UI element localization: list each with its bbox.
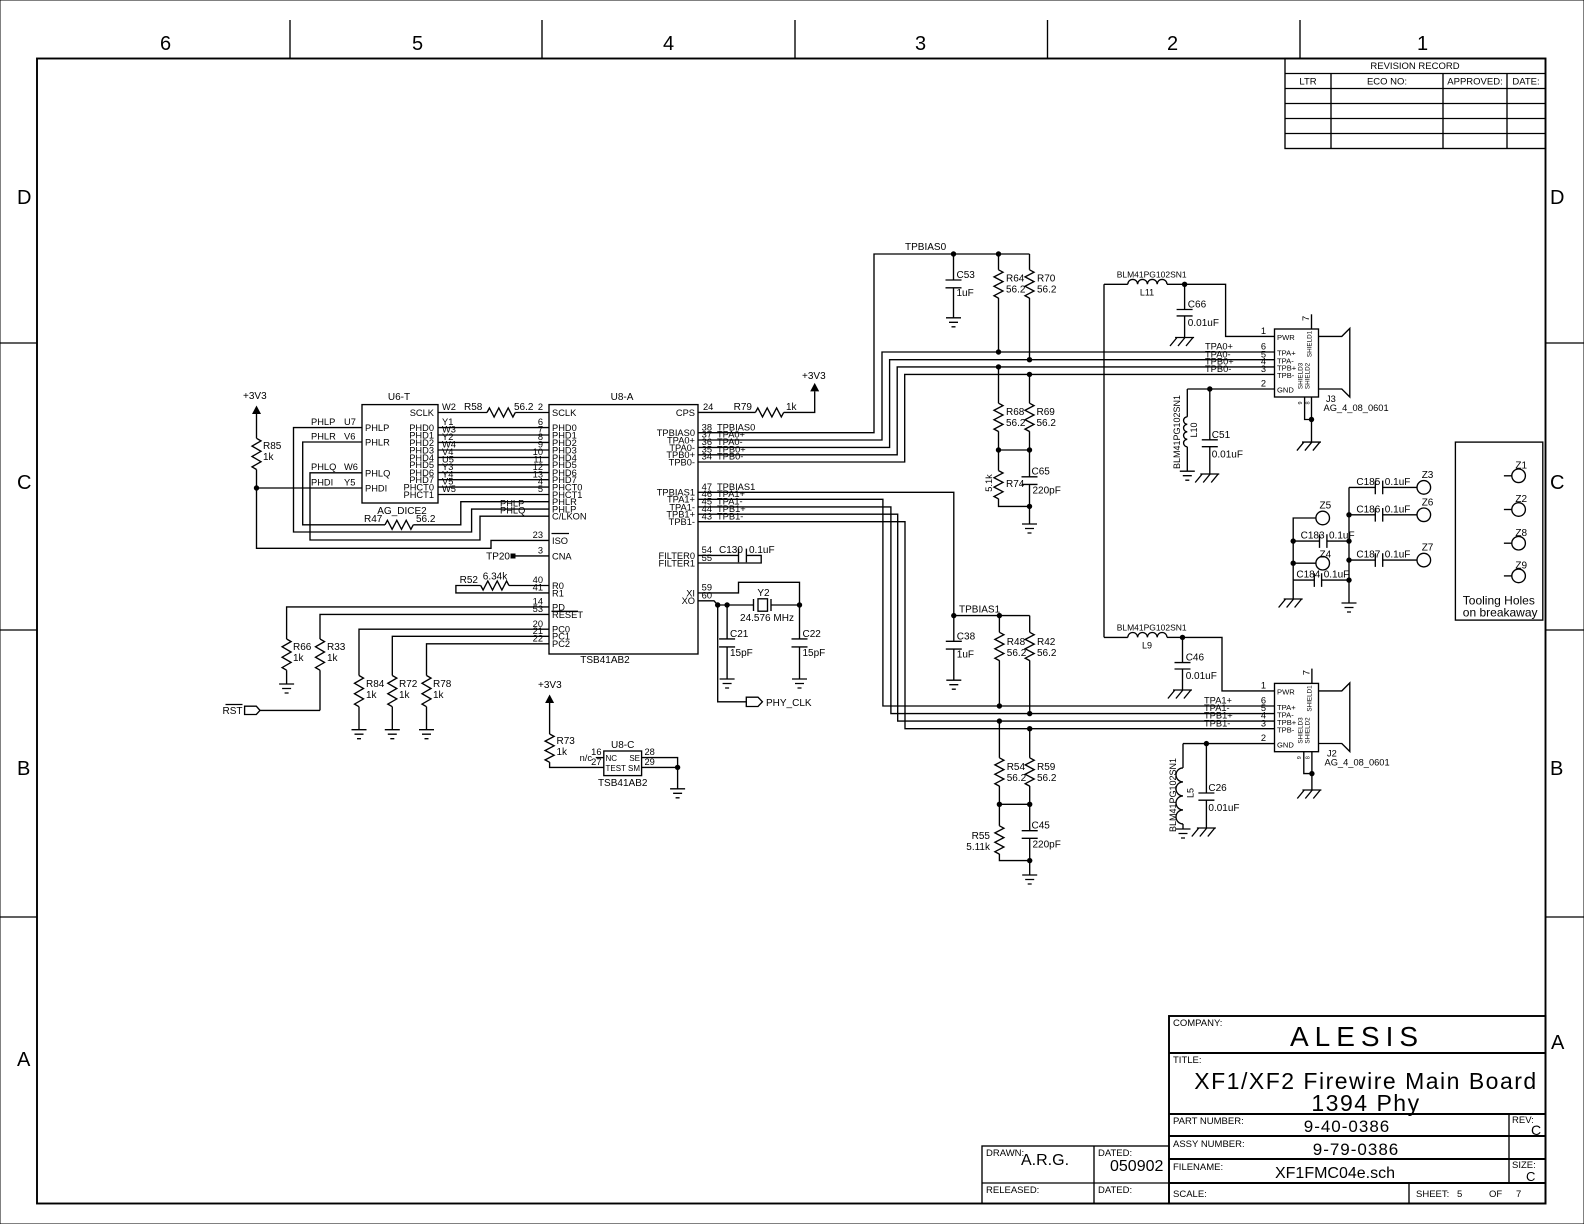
svg-text:TPB0-: TPB0-	[1205, 364, 1231, 374]
svg-text:5.11k: 5.11k	[966, 842, 991, 853]
svg-text:55: 55	[702, 553, 712, 563]
node TPBIAS1	[951, 613, 956, 618]
svg-text:NC: NC	[606, 754, 618, 763]
wire SE pin 28	[642, 747, 678, 767]
svg-text:C184: C184	[1296, 570, 1320, 581]
ground under C21	[720, 679, 735, 688]
node TPBIAS0/C53	[951, 251, 956, 256]
J3 connector horn	[1319, 328, 1350, 397]
node J2 shields	[1309, 771, 1314, 776]
node GND/C51	[1207, 386, 1212, 391]
svg-text:GND: GND	[1277, 741, 1294, 750]
resistor R55 5.11k	[966, 804, 1029, 860]
svg-text:U6-T: U6-T	[388, 392, 410, 403]
svg-text:AG_4_08_0601: AG_4_08_0601	[1324, 403, 1389, 413]
chassis ground under C46	[1168, 690, 1192, 699]
svg-text:9: 9	[1297, 756, 1303, 759]
svg-text:R73: R73	[557, 736, 576, 747]
svg-text:Z5: Z5	[1320, 501, 1332, 512]
svg-text:SHIELD1: SHIELD1	[1307, 685, 1314, 712]
svg-text:2: 2	[1261, 379, 1266, 389]
node Z5/C183	[1291, 538, 1296, 543]
svg-text:24: 24	[703, 402, 713, 412]
wire PHDI	[257, 477, 363, 488]
IC U8-C TSB41AB2 box	[598, 740, 648, 789]
wire XO to crystal	[698, 590, 718, 605]
svg-text:C65: C65	[1032, 467, 1051, 478]
svg-text:R52: R52	[460, 575, 479, 586]
wire TPBIAS1 net (pin 47 down to rail)	[698, 482, 1001, 616]
chassis ground under C26	[1192, 828, 1216, 837]
svg-text:XF1FMC04e.sch: XF1FMC04e.sch	[1275, 1165, 1395, 1182]
svg-text:2: 2	[1167, 33, 1178, 55]
svg-text:1k: 1k	[366, 690, 378, 701]
svg-text:1k: 1k	[557, 747, 569, 758]
svg-text:2: 2	[538, 402, 543, 412]
svg-text:A: A	[1551, 1032, 1565, 1054]
svg-text:2: 2	[1261, 733, 1266, 743]
svg-text:PART NUMBER:: PART NUMBER:	[1173, 1116, 1244, 1127]
capacitor C22 15pF	[792, 605, 826, 679]
wire RESET net	[320, 604, 549, 639]
svg-text:SM: SM	[628, 764, 640, 773]
tooling hole Z3	[1417, 470, 1434, 494]
capacitor C53 1uF	[946, 254, 976, 318]
svg-text:TPBIAS0: TPBIAS0	[905, 242, 947, 253]
svg-text:4: 4	[663, 33, 674, 55]
wire TPA0+ (pin 37 to J3 pin 6)	[698, 342, 1275, 440]
wire TPBIAS0 net (pin 38 up to rail)	[698, 242, 1030, 433]
node C186 tap	[1346, 512, 1351, 517]
wire R54-R59 tie	[999, 803, 1029, 805]
svg-text:1: 1	[1417, 33, 1428, 55]
tooling hole Z2	[1504, 494, 1528, 516]
svg-text:56.2: 56.2	[1037, 773, 1057, 784]
node R70/TPA0-	[1027, 357, 1032, 362]
node Y2/C22	[797, 602, 802, 607]
resistor R54 56.2	[995, 721, 1027, 804]
svg-text:9: 9	[1298, 401, 1304, 404]
svg-text:Z7: Z7	[1422, 543, 1434, 554]
svg-text:3: 3	[1261, 718, 1266, 728]
svg-text:C46: C46	[1186, 653, 1205, 664]
svg-text:R66: R66	[293, 642, 312, 653]
svg-text:7: 7	[1301, 670, 1311, 675]
svg-text:BLM41PG102SN1: BLM41PG102SN1	[1172, 395, 1182, 469]
svg-text:XO: XO	[682, 596, 695, 606]
svg-text:Z3: Z3	[1422, 470, 1434, 481]
svg-text:W5: W5	[442, 484, 456, 494]
svg-text:9-79-0386: 9-79-0386	[1313, 1140, 1400, 1159]
resistor R68 56.2	[994, 367, 1026, 450]
svg-text:23: 23	[533, 530, 543, 540]
wire PC2 net	[427, 633, 550, 675]
svg-text:AG_4_08_0601: AG_4_08_0601	[1325, 758, 1390, 768]
svg-text:15pF: 15pF	[803, 648, 826, 659]
svg-text:56.2: 56.2	[1007, 773, 1027, 784]
svg-text:1k: 1k	[786, 402, 798, 413]
svg-text:R42: R42	[1037, 637, 1056, 648]
svg-text:PHLQ: PHLQ	[311, 462, 336, 472]
svg-text:TPB1-: TPB1-	[669, 517, 695, 527]
svg-text:0.01uF: 0.01uF	[1186, 671, 1217, 682]
svg-text:B: B	[17, 758, 30, 780]
svg-text:56.2: 56.2	[1037, 285, 1057, 296]
svg-text:TITLE:: TITLE:	[1173, 1055, 1202, 1066]
svg-text:SCLK: SCLK	[410, 408, 435, 418]
power symbol +3V3 (at R79)	[802, 371, 826, 391]
svg-text:56.2: 56.2	[514, 402, 534, 413]
node Z4 left	[1291, 561, 1296, 566]
tooling hole Z9	[1504, 561, 1528, 583]
resistor R73 1k	[545, 734, 604, 767]
svg-text:C130: C130	[719, 545, 743, 556]
svg-text:0.1uF: 0.1uF	[1385, 477, 1411, 488]
node R55/C45/gnd	[1027, 858, 1032, 863]
svg-text:+3V3: +3V3	[802, 371, 826, 382]
node R42/TPA1-	[1027, 711, 1032, 716]
svg-text:1k: 1k	[293, 653, 305, 664]
svg-text:28: 28	[645, 747, 655, 757]
node +3V3/PHDI junction	[254, 485, 259, 490]
svg-text:PHLQ: PHLQ	[365, 468, 390, 478]
svg-text:ALESIS: ALESIS	[1290, 1021, 1424, 1052]
svg-text:ISO: ISO	[552, 536, 568, 546]
svg-text:C22: C22	[803, 629, 822, 640]
capacitor C21 15pF	[719, 605, 753, 679]
svg-text:1uF: 1uF	[957, 288, 974, 299]
svg-text:R58: R58	[464, 402, 483, 413]
svg-text:PHDI: PHDI	[311, 477, 333, 487]
svg-text:SHEET:: SHEET:	[1416, 1189, 1449, 1200]
svg-text:C21: C21	[730, 629, 749, 640]
svg-text:W2: W2	[442, 402, 456, 412]
svg-text:56.2: 56.2	[1037, 418, 1057, 429]
svg-text:53: 53	[533, 604, 543, 614]
svg-text:PHY_CLK: PHY_CLK	[766, 698, 812, 709]
svg-text:8: 8	[1306, 756, 1312, 759]
svg-text:C51: C51	[1212, 430, 1231, 441]
svg-text:DATE:: DATE:	[1512, 77, 1539, 88]
svg-text:R85: R85	[263, 441, 282, 452]
svg-text:TPB1-: TPB1-	[1204, 718, 1230, 728]
node R48/TPA1+	[997, 703, 1002, 708]
svg-text:43: 43	[702, 511, 712, 521]
power symbol +3V3 (top left)	[243, 391, 267, 438]
svg-text:C185: C185	[1356, 477, 1380, 488]
svg-text:R33: R33	[327, 642, 346, 653]
svg-text:FILENAME:: FILENAME:	[1173, 1162, 1223, 1173]
svg-text:1: 1	[1261, 681, 1266, 691]
capacitor C26 0.01uF	[1198, 744, 1239, 828]
node R59/C45	[1027, 802, 1032, 807]
svg-text:56.2: 56.2	[1006, 285, 1026, 296]
svg-text:5.1k: 5.1k	[984, 474, 994, 492]
node R68/R74	[996, 447, 1001, 452]
node R64/TPA0+	[996, 349, 1001, 354]
svg-text:SCALE:: SCALE:	[1173, 1189, 1207, 1200]
resistor R42 56.2	[1025, 616, 1057, 714]
capacitor C185 0.1uF	[1349, 477, 1417, 494]
chassis ground under C66	[1170, 338, 1194, 347]
node TPBIAS0/R64	[996, 251, 1001, 256]
resistor R59 56.2	[1025, 729, 1057, 805]
svg-text:FILTER1: FILTER1	[658, 558, 695, 568]
ground under L5	[1176, 829, 1191, 838]
wire TPA0- (pin 36 to J3 pin 5)	[698, 349, 1275, 447]
svg-text:REVISION RECORD: REVISION RECORD	[1370, 61, 1459, 72]
svg-text:W6: W6	[344, 462, 358, 472]
node R69/C65	[1027, 447, 1032, 452]
svg-text:PHLR: PHLR	[365, 438, 390, 448]
wire to J3 PWR	[1185, 284, 1275, 336]
ground under C53	[946, 318, 961, 327]
svg-text:SHIELD3: SHIELD3	[1298, 362, 1305, 389]
wire PHCT0	[438, 477, 549, 487]
svg-text:SHIELD2: SHIELD2	[1305, 362, 1312, 389]
svg-text:L10: L10	[1189, 422, 1199, 437]
capacitor C46 0.01uF	[1175, 637, 1217, 690]
wire to J2 PWR	[1183, 637, 1275, 691]
svg-text:PWR: PWR	[1277, 333, 1295, 342]
tooling hole Z4	[1293, 550, 1331, 571]
tooling hole Z6	[1417, 497, 1434, 521]
svg-text:CNA: CNA	[552, 551, 572, 561]
node J3 shields	[1309, 417, 1314, 422]
wire TPA1+ (pin 46 to J2 pin 6)	[698, 489, 1275, 706]
resistor R66 1k	[282, 639, 312, 684]
svg-text:TPB-: TPB-	[1277, 371, 1295, 380]
svg-text:0.01uF: 0.01uF	[1208, 803, 1239, 814]
capacitor C184 0.1uF	[1293, 570, 1349, 587]
wire SM pin 29	[642, 757, 678, 767]
svg-text:TSB41AB2: TSB41AB2	[580, 655, 630, 666]
inductor L5 BLM41PG102SN1	[1168, 744, 1196, 832]
tooling hole Z8	[1504, 528, 1528, 550]
svg-text:8: 8	[1306, 401, 1312, 404]
svg-text:RELEASED:: RELEASED:	[986, 1185, 1039, 1196]
node GND/C26	[1204, 741, 1209, 746]
ground under C45	[1022, 861, 1037, 884]
IC U6-T box	[362, 392, 438, 517]
wire TPB1+ (pin 44 to J2 pin 4)	[698, 504, 1275, 721]
svg-text:PHLP: PHLP	[311, 417, 335, 427]
svg-text:DRAWN:: DRAWN:	[986, 1148, 1024, 1159]
svg-text:1k: 1k	[433, 690, 445, 701]
node R69/TPB0-	[1027, 372, 1032, 377]
svg-text:5: 5	[538, 484, 543, 494]
J3 pin 7 stub	[1301, 314, 1312, 329]
svg-text:ECO NO:: ECO NO:	[1367, 77, 1407, 88]
svg-text:U8-A: U8-A	[611, 392, 634, 403]
svg-text:V6: V6	[344, 431, 355, 441]
svg-text:U8-C: U8-C	[611, 740, 634, 751]
svg-text:on breakaway: on breakaway	[1463, 606, 1538, 620]
svg-text:7: 7	[1516, 1189, 1521, 1200]
svg-text:SE: SE	[629, 754, 640, 763]
wire PC1 net	[392, 626, 549, 676]
svg-text:L5: L5	[1186, 788, 1196, 798]
svg-text:APPROVED:: APPROVED:	[1447, 77, 1502, 88]
resistor R72 1k	[388, 676, 418, 730]
revision record table	[1285, 59, 1546, 149]
svg-text:56.2: 56.2	[416, 514, 436, 525]
node XO junction	[715, 602, 720, 607]
svg-text:R72: R72	[399, 679, 418, 690]
signal flag PHY_CLK	[718, 605, 812, 709]
wire PHD2	[438, 432, 549, 442]
wire TPA1- (pin 45 to J2 pin 5)	[698, 497, 1275, 714]
svg-text:3: 3	[915, 33, 926, 55]
svg-text:SHIELD2: SHIELD2	[1305, 717, 1312, 744]
connector J3 AG_4_08_0601	[1261, 326, 1389, 413]
wire TPBIAS1 rail	[954, 615, 1030, 617]
svg-text:Y2: Y2	[757, 588, 770, 599]
svg-text:L9: L9	[1142, 641, 1152, 651]
svg-text:R78: R78	[433, 679, 452, 690]
tooling hole Z5	[1293, 501, 1331, 542]
chassis ground under Z cluster	[1279, 580, 1303, 607]
svg-text:R48: R48	[1007, 637, 1026, 648]
wire J2 GND	[1183, 743, 1275, 745]
ground under R66	[279, 684, 294, 693]
resistor R70 56.2	[1025, 254, 1057, 360]
wire PD net	[287, 597, 549, 640]
inductor L10 BLM41PG102SN1	[1172, 389, 1199, 471]
svg-text:C/LKON: C/LKON	[552, 512, 587, 522]
node R54/R55	[997, 802, 1002, 807]
svg-text:R69: R69	[1037, 407, 1056, 418]
svg-text:R55: R55	[972, 831, 991, 842]
inductor L11 BLM41PG102SN1	[1104, 270, 1187, 298]
resistor R64 56.2	[994, 254, 1026, 352]
tooling holes breakaway box	[1455, 442, 1542, 620]
svg-text:SHIELD1: SHIELD1	[1307, 330, 1314, 357]
svg-text:A: A	[17, 1049, 31, 1071]
wire C185 bus vertical	[1348, 487, 1350, 603]
wire TPB0- (pin 34 to J3 pin 3)	[698, 364, 1275, 462]
ground under SE/SM	[670, 767, 685, 797]
svg-text:DATED:: DATED:	[1098, 1185, 1132, 1196]
svg-text:1: 1	[1261, 326, 1266, 336]
svg-text:PC2: PC2	[552, 639, 570, 649]
svg-text:C38: C38	[957, 631, 976, 642]
svg-text:R64: R64	[1006, 274, 1025, 285]
wire PHCT1	[438, 484, 549, 494]
svg-text:29: 29	[645, 757, 655, 767]
svg-text:R79: R79	[734, 402, 753, 413]
svg-text:R59: R59	[1037, 762, 1056, 773]
svg-text:5: 5	[412, 33, 423, 55]
resistor R78 1k	[422, 676, 452, 730]
capacitor C38 1uF	[946, 616, 976, 681]
svg-text:CPS: CPS	[676, 408, 695, 418]
svg-text:D: D	[1550, 187, 1564, 209]
crystal Y2 24.576 MHz	[718, 588, 800, 624]
ground under R84	[352, 730, 367, 739]
ground under R72	[385, 730, 400, 739]
svg-text:0.1uF: 0.1uF	[1324, 570, 1350, 581]
power symbol +3V3 (at R73)	[538, 680, 562, 734]
wire XI to crystal	[698, 582, 800, 605]
svg-text:R84: R84	[366, 679, 385, 690]
svg-text:R70: R70	[1037, 274, 1056, 285]
svg-text:15pF: 15pF	[730, 648, 753, 659]
wire PC0 net	[359, 619, 549, 676]
svg-text:C66: C66	[1188, 300, 1207, 311]
svg-text:1k: 1k	[399, 690, 411, 701]
node R74/C65/gnd	[1027, 504, 1032, 509]
svg-text:TSB41AB2: TSB41AB2	[598, 778, 648, 789]
capacitor C187 0.1uF	[1349, 550, 1417, 567]
svg-text:0.01uF: 0.01uF	[1188, 318, 1219, 329]
svg-text:+3V3: +3V3	[243, 391, 267, 402]
resistor R74 5.1k	[984, 450, 1030, 506]
drawn/released block	[982, 1146, 1169, 1204]
ground under R78	[419, 730, 434, 739]
svg-text:27: 27	[591, 757, 601, 767]
wire PHD5	[438, 454, 549, 464]
wire PHD6	[438, 462, 549, 472]
wire R68-R69 tie	[999, 449, 1030, 451]
svg-text:3: 3	[1261, 364, 1266, 374]
svg-text:Z6: Z6	[1422, 497, 1434, 508]
ground under L10	[1180, 471, 1195, 480]
svg-text:1k: 1k	[327, 653, 339, 664]
wire PHD1	[438, 425, 549, 435]
node C21 junction	[724, 602, 729, 607]
wire CPS + resistor R79 1k to +3V3	[698, 391, 815, 417]
svg-text:COMPANY:: COMPANY:	[1173, 1018, 1222, 1029]
svg-text:SHIELD3: SHIELD3	[1298, 717, 1305, 744]
svg-text:R68: R68	[1006, 407, 1025, 418]
tooling hole Z7	[1417, 543, 1434, 567]
wire PHLR + resistor R47 56.2	[303, 431, 549, 529]
chassis ground under J2 shields	[1297, 790, 1321, 799]
svg-text:22: 22	[533, 633, 543, 643]
chassis ground under C51	[1195, 474, 1219, 483]
ground under C22	[792, 679, 807, 688]
svg-text:TPB1-: TPB1-	[717, 511, 743, 521]
svg-text:0.1uF: 0.1uF	[1385, 550, 1411, 561]
capacitor C66 0.01uF	[1177, 284, 1219, 337]
resistor R84 1k	[355, 676, 385, 730]
svg-text:24.576 MHz: 24.576 MHz	[740, 613, 794, 624]
wire TPB1- (pin 43 to J2 pin 3)	[698, 511, 1275, 728]
pin 16 NC stub n/c	[580, 747, 604, 767]
svg-text:C: C	[1526, 1169, 1535, 1184]
resistor R85 1k	[252, 438, 282, 488]
svg-text:1394 Phy: 1394 Phy	[1311, 1090, 1420, 1116]
svg-text:PHDI: PHDI	[365, 484, 387, 494]
svg-text:R54: R54	[1007, 762, 1026, 773]
svg-text:BLM41PG102SN1: BLM41PG102SN1	[1117, 623, 1187, 633]
capacitor C45 220pF	[1022, 804, 1061, 860]
svg-text:B: B	[1550, 758, 1563, 780]
svg-text:TPBIAS1: TPBIAS1	[959, 605, 1001, 616]
svg-text:6: 6	[160, 33, 171, 55]
node SE/SM	[675, 765, 680, 770]
svg-text:U7: U7	[344, 417, 356, 427]
svg-text:6.34k: 6.34k	[483, 572, 508, 583]
svg-text:1k: 1k	[263, 452, 275, 463]
svg-text:PHLP: PHLP	[365, 423, 389, 433]
svg-text:TEST: TEST	[606, 764, 627, 773]
svg-text:+3V3: +3V3	[538, 680, 562, 691]
svg-text:16: 16	[591, 747, 601, 757]
svg-text:A.R.G.: A.R.G.	[1021, 1152, 1069, 1169]
capacitor C186 0.1uF	[1349, 504, 1417, 521]
